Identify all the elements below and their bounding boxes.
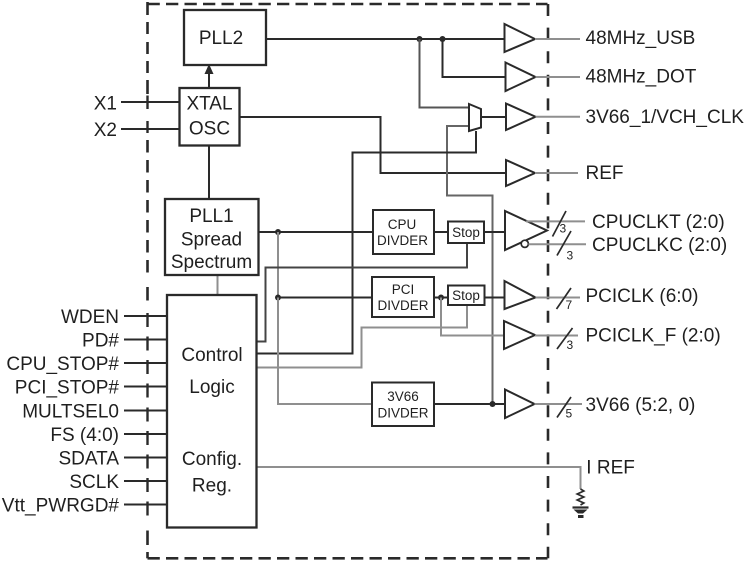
node junction 3V66 output [490, 401, 496, 407]
svg-text:CPU: CPU [388, 217, 417, 232]
wire CPU Stop control from Control Logic [257, 243, 468, 342]
wire PCICLK_F branch [441, 298, 504, 336]
wire XTAL OSC to PLL2 with arrowhead [205, 64, 214, 88]
svg-text:WDEN: WDEN [61, 307, 119, 328]
wire FS [124, 433, 167, 435]
bus slash 3V66 [557, 397, 571, 418]
boundary tick marks left [146, 96, 148, 516]
wire PCICLK_F output stub [535, 335, 578, 337]
wire 48MHz to DOT buffer [443, 39, 506, 77]
svg-text:PD#: PD# [82, 331, 119, 352]
wire MULTSEL0 [124, 410, 167, 412]
wire CPUCLKC output stub [529, 243, 587, 245]
wire PLL2 to 48MHz_USB buffer [266, 38, 505, 40]
buffer REF [506, 160, 535, 186]
wire SDATA [124, 457, 167, 459]
svg-text:3V66 (5:2, 0): 3V66 (5:2, 0) [586, 395, 696, 416]
svg-text:48MHz_DOT: 48MHz_DOT [586, 67, 697, 88]
CPU DIVDER box [373, 210, 434, 254]
wire CPU Stop to CPU buffer [484, 231, 505, 233]
wire 48MHz to mux input A [420, 39, 470, 108]
PLL1 Spread Spectrum box [165, 199, 259, 275]
svg-text:Spread: Spread [181, 230, 242, 251]
svg-text:3: 3 [567, 249, 574, 263]
wire PCI_STOP# [124, 386, 167, 388]
node junction PCI row [275, 295, 281, 301]
wire WDEN [124, 315, 167, 317]
wire Vtt_PWRGD# [124, 504, 167, 506]
svg-text:SCLK: SCLK [69, 472, 119, 493]
bus slash CPUCLKT [553, 211, 567, 237]
PLL2 box [184, 10, 266, 65]
wire XTAL OSC to PLL1 [208, 146, 210, 200]
svg-text:DIVDER: DIVDER [377, 406, 428, 421]
node junction on 48MHz line (DOT branch) [440, 36, 446, 42]
resistor on I REF [577, 489, 584, 505]
wire PCICLK output stub [536, 297, 581, 299]
mux (clock select) [469, 104, 481, 131]
svg-text:Vtt_PWRGD#: Vtt_PWRGD# [2, 496, 120, 517]
svg-text:I REF: I REF [586, 458, 635, 479]
node junction on 48MHz line (mux branch) [417, 36, 423, 42]
wire PD# [124, 339, 167, 341]
wire 3V66 DIVDER to 3V66 buffer [434, 403, 505, 405]
wire control logic to mux select [257, 131, 477, 354]
svg-text:X2: X2 [94, 120, 117, 141]
wire PCI Stop to PCI buffer [485, 297, 505, 299]
buffer 3V66_1/VCH_CLK [506, 104, 536, 131]
svg-text:Logic: Logic [189, 377, 234, 398]
buffer CPUCLK differential [505, 211, 547, 250]
wire to PCI DIVDER [278, 297, 372, 299]
wire CPUCLKT output stub [526, 220, 585, 222]
wire PCI Stop control from Control Logic [257, 305, 468, 368]
svg-text:Stop: Stop [452, 288, 480, 303]
PCI DIVDER box [372, 277, 434, 317]
svg-text:Config.: Config. [182, 449, 242, 470]
XTAL OSC box [180, 88, 240, 146]
3V66 DIVDER box [372, 383, 434, 427]
svg-text:PCI_STOP#: PCI_STOP# [15, 378, 120, 399]
svg-text:X1: X1 [94, 94, 117, 115]
svg-text:3: 3 [567, 338, 574, 352]
wire X1 input [121, 101, 180, 103]
wire USB output stub [535, 38, 580, 40]
wire PLL1 branch down to 3V66 DIVDER [278, 298, 372, 405]
wire PLL1 to Control Logic [217, 275, 219, 295]
svg-text:5: 5 [566, 407, 573, 421]
wire I REF from Config Reg [257, 467, 581, 489]
svg-text:PCI: PCI [392, 282, 415, 297]
chip boundary dashed border [148, 2, 549, 558]
wire DOT output stub [536, 76, 581, 78]
svg-text:PCICLK (6:0): PCICLK (6:0) [586, 286, 699, 307]
svg-text:SDATA: SDATA [58, 449, 119, 470]
wire REF output stub [535, 172, 578, 174]
svg-text:MULTSEL0: MULTSEL0 [22, 402, 119, 423]
svg-text:3: 3 [560, 222, 567, 236]
wire PCI DIVDER to Stop [434, 297, 448, 299]
bus slash CPUCLKC [557, 231, 571, 256]
buffer PCICLK_F [504, 321, 535, 349]
svg-text:Spectrum: Spectrum [171, 252, 252, 273]
Control Logic / Config Reg box [167, 295, 257, 528]
svg-text:Reg.: Reg. [192, 476, 232, 497]
wire CPU_STOP# [124, 362, 167, 364]
bus slash PCICLK [557, 288, 572, 309]
CPU Stop box [448, 222, 484, 244]
node junction before PCI Stop [438, 295, 444, 301]
node junction PLL1 output [275, 229, 281, 235]
buffer 48MHz_USB [505, 24, 536, 52]
ground symbol [573, 508, 589, 519]
wire CPU DIVDER to Stop [434, 231, 448, 233]
inverter bubble CPUCLKC [521, 240, 528, 247]
svg-text:DIVDER: DIVDER [377, 298, 428, 313]
svg-text:PLL1: PLL1 [189, 206, 233, 227]
svg-text:7: 7 [566, 298, 573, 312]
wire mux output to 3V66_1 buffer [481, 116, 506, 118]
svg-text:CPU_STOP#: CPU_STOP# [6, 354, 119, 375]
svg-text:CPUCLKC (2:0): CPUCLKC (2:0) [592, 235, 727, 256]
svg-text:Stop: Stop [452, 225, 480, 240]
wire XTAL OSC to REF buffer [240, 117, 507, 173]
svg-text:3V66_1/VCH_CLK: 3V66_1/VCH_CLK [586, 107, 745, 128]
bus slash PCICLK_F [557, 328, 573, 349]
PCI Stop box [448, 286, 485, 306]
svg-text:48MHz_USB: 48MHz_USB [586, 28, 696, 49]
svg-text:CPUCLKT (2:0): CPUCLKT (2:0) [592, 212, 725, 233]
svg-text:PCICLK_F (2:0): PCICLK_F (2:0) [586, 326, 721, 347]
svg-text:3V66: 3V66 [387, 389, 419, 404]
svg-text:XTAL: XTAL [186, 94, 232, 115]
svg-text:REF: REF [586, 163, 624, 184]
buffer 3V66 [505, 390, 535, 419]
wire PLL1 branch down to PCI row [277, 232, 279, 298]
buffer PCICLK [505, 281, 536, 309]
wire X2 input [121, 128, 180, 130]
wire 3V66 output stub [535, 403, 583, 405]
svg-text:OSC: OSC [189, 119, 230, 140]
wire SCLK [124, 480, 167, 482]
svg-text:FS (4:0): FS (4:0) [50, 425, 119, 446]
buffer 48MHz_DOT [506, 63, 536, 92]
svg-text:PLL2: PLL2 [199, 28, 243, 49]
wire VCH output stub [536, 116, 581, 118]
svg-text:Control: Control [181, 345, 242, 366]
wire 3V66 divider output up to mux input B [447, 126, 493, 404]
wire PLL1 to CPU DIVDER [259, 231, 374, 233]
svg-text:DIVDER: DIVDER [377, 233, 428, 248]
